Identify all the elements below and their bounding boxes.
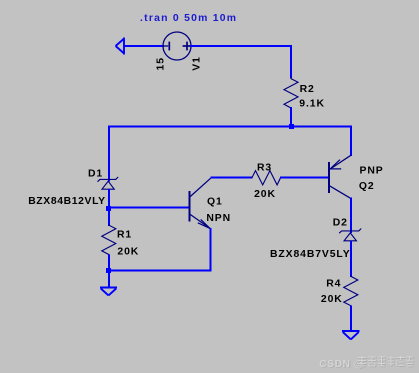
wire (R2 bottom to bus)	[290, 107, 292, 127]
wire (D1 anode down through junction to R1)	[108, 189, 110, 226]
svg-text:R1: R1	[117, 229, 132, 240]
svg-text:15: 15	[155, 57, 166, 70]
wire (R3 to Q2 base)	[280, 177, 329, 179]
svg-text:PNP: PNP	[360, 165, 384, 176]
zener diode D1	[98, 177, 119, 189]
ground (bottom right)	[342, 331, 360, 339]
svg-text:V1: V1	[191, 56, 202, 71]
watermark CSDN @	[319, 358, 365, 371]
junction (bus / R2)	[289, 124, 294, 129]
resistor R3	[251, 171, 282, 185]
svg-text:Q2: Q2	[359, 181, 375, 192]
resistor R4	[344, 275, 358, 307]
svg-text:R3: R3	[257, 163, 272, 174]
wire (V1 plus pin to top-right corner)	[190, 45, 292, 47]
wire (ground to V1 minus pin)	[124, 45, 164, 47]
svg-text:9.1K: 9.1K	[299, 99, 325, 110]
svg-text:R4: R4	[326, 279, 341, 290]
svg-text:CSDN @: CSDN @	[319, 358, 364, 370]
svg-text:D1: D1	[88, 168, 103, 179]
svg-text:BZX84B7V5LY: BZX84B7V5LY	[270, 249, 351, 260]
voltage source V1	[163, 32, 191, 60]
svg-text:NPN: NPN	[206, 213, 231, 224]
svg-text:20K: 20K	[254, 189, 276, 200]
ground (bottom left)	[100, 288, 117, 296]
wire (R4 bottom to ground)	[350, 306, 352, 332]
svg-text:D2: D2	[333, 217, 348, 228]
wire (Q1 base)	[108, 207, 189, 209]
wire (R1 bottom to ground, through junction)	[108, 255, 110, 289]
wire (horizontal bus)	[108, 126, 352, 128]
svg-text:BZX84B12VLY: BZX84B12VLY	[28, 196, 105, 207]
wire (Q1 emitter down)	[210, 228, 212, 272]
wire (down to R2)	[290, 45, 292, 78]
junction (D1 / R1 / Q1 base)	[106, 206, 111, 211]
transistor Q1 (NPN)	[190, 178, 211, 228]
svg-text:20K: 20K	[321, 294, 343, 305]
zener diode D2	[339, 229, 361, 241]
wire (left vertical down to D1)	[108, 126, 110, 182]
wire (bus to Q2 emitter)	[350, 126, 352, 157]
transistor Q2 (PNP)	[329, 155, 351, 198]
wire (emitter return to R1 bottom junction)	[108, 270, 212, 272]
resistor R2	[284, 77, 298, 109]
svg-text:Q1: Q1	[207, 197, 223, 208]
wire (Q1 collector to R3)	[211, 177, 253, 179]
wire (Q2 collector down to D2)	[350, 198, 352, 234]
wire (D2 anode to R4)	[350, 241, 352, 277]
resistor R1	[102, 224, 116, 256]
svg-text:.tran 0 50m 10m: .tran 0 50m 10m	[140, 13, 237, 24]
junction (R1 / Q1 emitter return)	[106, 268, 111, 273]
svg-text:20K: 20K	[117, 246, 139, 257]
svg-text:R2: R2	[300, 84, 315, 95]
ground (left of V1)	[116, 38, 124, 55]
watermark CJK glyph blocks	[359, 357, 415, 367]
